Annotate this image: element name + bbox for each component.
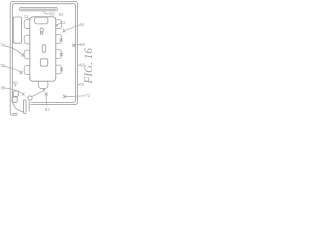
- svg-text:12: 12: [24, 14, 29, 19]
- svg-text:66: 66: [80, 42, 85, 47]
- svg-text:62: 62: [61, 20, 66, 25]
- svg-text:82: 82: [45, 107, 50, 112]
- svg-text:60: 60: [59, 12, 64, 17]
- svg-text:72: 72: [86, 93, 91, 98]
- svg-text:64: 64: [80, 22, 85, 27]
- svg-text:78: 78: [0, 85, 5, 90]
- svg-text:58: 58: [50, 11, 55, 16]
- svg-text:FIG. 16: FIG. 16: [83, 48, 93, 85]
- svg-text:74: 74: [0, 43, 5, 48]
- svg-text:80: 80: [13, 80, 18, 85]
- svg-text:76: 76: [0, 63, 5, 68]
